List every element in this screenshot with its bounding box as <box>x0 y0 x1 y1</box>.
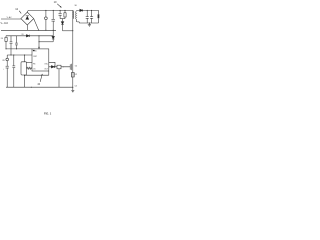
wire vcc vertical into IC <box>38 36 40 49</box>
node dot rail x53.2 <box>53 10 54 11</box>
wire to vcc vertical <box>39 41 53 43</box>
wire drain-source vertical <box>72 10 74 72</box>
wire leader for 12 <box>19 11 21 14</box>
svg-text:40: 40 <box>37 83 40 86</box>
node dot on rail <box>31 87 32 88</box>
diode D3 vcc column <box>52 36 55 38</box>
svg-text:V~ 110: V~ 110 <box>1 22 9 25</box>
node dot rail x60.1 <box>60 10 61 11</box>
svg-text:30: 30 <box>74 5 77 7</box>
wire opto bottom to IC gnd <box>25 74 49 76</box>
node dot <box>72 30 73 31</box>
wire IC pin row2 <box>7 54 32 56</box>
capacitor C7 <box>87 10 88 11</box>
wire snubber to drain <box>63 30 73 32</box>
node dot lower rail x45.9 <box>45 30 46 31</box>
node dot lower rail x53.2 <box>53 30 54 31</box>
wire AC input line <box>1 18 21 20</box>
op-amp U1 controller IC box <box>32 49 49 71</box>
wire opto bottom down <box>24 75 26 87</box>
svg-text:+: + <box>3 69 5 71</box>
ground primary <box>72 87 74 90</box>
wire snubber join <box>60 18 65 20</box>
node dot rail x45.9 <box>45 10 46 11</box>
diode D1 output <box>80 9 83 11</box>
capacitor C2 <box>10 36 12 42</box>
pin 1 mark <box>33 50 35 51</box>
svg-text:54: 54 <box>75 85 78 87</box>
node dot <box>16 48 17 49</box>
node dot vcc T <box>39 35 40 36</box>
svg-text:28: 28 <box>2 60 5 62</box>
capacitor C3 <box>16 36 18 43</box>
node dot <box>6 48 7 49</box>
wire CS path right <box>49 62 55 67</box>
svg-text:12: 12 <box>15 7 18 11</box>
svg-text:50: 50 <box>75 66 78 68</box>
node dot <box>62 65 65 68</box>
diode D5 snubber <box>61 22 64 25</box>
transformer primary winding <box>72 11 75 19</box>
wire bridge bottom to lower rail <box>26 25 28 30</box>
capacitor C5 <box>13 55 15 66</box>
bridge rectifier BR1 diamond <box>21 12 34 25</box>
resistor R6 snubber <box>64 10 66 12</box>
capacitor C8 <box>91 10 92 11</box>
circle component col7 <box>6 58 9 61</box>
wire opto to IC row3 <box>27 61 33 63</box>
mosfet channel bar <box>71 64 73 70</box>
node dot rail x65 <box>65 10 66 11</box>
resistor R3 zigzag <box>27 67 33 69</box>
diode inside bridge <box>26 16 29 19</box>
wire stub to opto top <box>24 55 26 62</box>
wire bottom ground rail <box>6 86 73 88</box>
resistor R1 load <box>98 10 100 14</box>
svg-text:10: 10 <box>54 0 57 4</box>
capacitor bulk C1 <box>52 10 54 19</box>
ground <box>88 23 90 25</box>
transformer secondary winding <box>76 9 78 12</box>
wire arrow for 10 <box>57 4 61 7</box>
diode D2 on VCC line <box>26 35 29 37</box>
wire VCC line <box>6 35 53 37</box>
svg-text:V~AC: V~AC <box>7 16 13 19</box>
svg-text:24: 24 <box>1 38 4 40</box>
svg-text:FIG. 1: FIG. 1 <box>44 111 52 115</box>
optocoupler U2 box <box>21 62 27 75</box>
resistor R4 gate <box>57 65 61 69</box>
wire bend down left <box>6 55 8 58</box>
wire top DC rail <box>27 10 73 12</box>
svg-text:OSC: OSC <box>44 63 49 65</box>
capacitor C6 snubber <box>59 10 61 13</box>
svg-text:52: 52 <box>75 74 78 76</box>
capacitor C4 electrolytic <box>6 65 9 67</box>
wire IC pin row1 <box>6 48 32 50</box>
diode D4 gate <box>51 66 54 68</box>
wire bridge right vertex diagonal to lower rail <box>34 19 39 31</box>
transistor Q1 mosfet gate bar <box>69 64 71 69</box>
wire secondary bottom rail <box>79 22 98 23</box>
resistor R2 startup <box>5 36 7 38</box>
resistor R5 sense <box>71 73 74 78</box>
wire arrow for 40 <box>40 75 42 82</box>
node dot <box>39 41 40 42</box>
varistor circle component <box>45 10 47 17</box>
wire lower AC/DC- rail <box>1 29 56 31</box>
wire gate drive <box>49 66 70 68</box>
wire secondary top line <box>79 9 99 11</box>
